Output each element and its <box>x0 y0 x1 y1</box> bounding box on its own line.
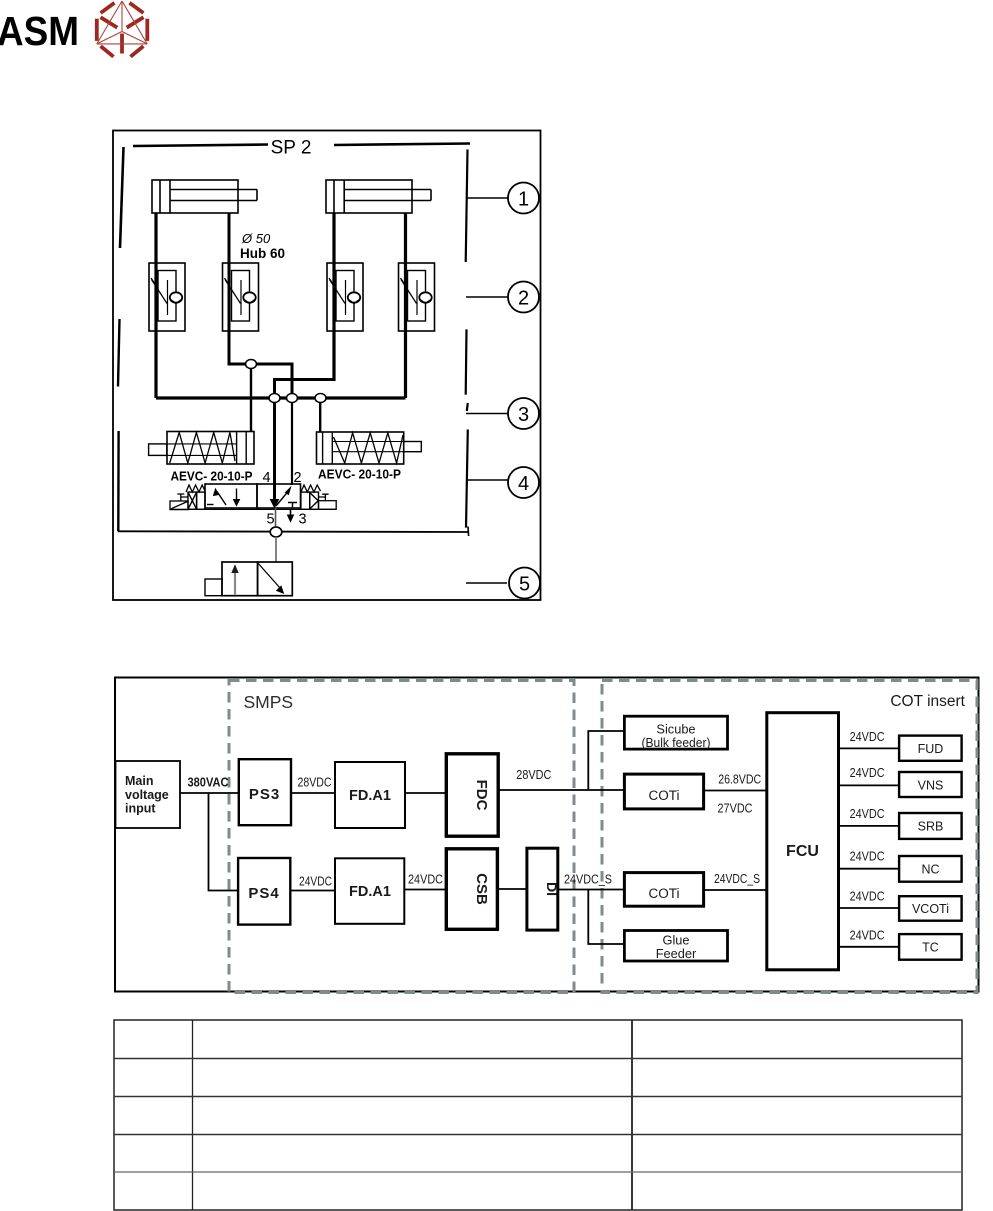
port label 5 <box>266 512 274 528</box>
wire cylinder2 left port down <box>332 213 335 381</box>
svg-text:FD.A1: FD.A1 <box>349 884 391 900</box>
svg-text:24VDC: 24VDC <box>408 873 443 887</box>
svg-text:24VDC_S: 24VDC_S <box>564 873 612 887</box>
node manifold middle <box>287 394 298 403</box>
wire FD.A1 to FDC <box>405 792 446 794</box>
callout circle 5 <box>509 568 540 599</box>
NC box <box>899 856 962 882</box>
COTi upper box <box>624 774 703 809</box>
valve V2 attachment <box>205 579 222 596</box>
FUD box <box>899 736 962 761</box>
valve V1 left manual override <box>170 494 188 510</box>
svg-text:TC: TC <box>922 941 939 955</box>
svg-text:Ø 50: Ø 50 <box>241 231 271 246</box>
svg-text:COTi: COTi <box>649 886 680 901</box>
svg-text:3: 3 <box>518 404 529 426</box>
label 24VDC SRB <box>850 807 885 821</box>
valve V1 exhaust arrow port 3 <box>288 510 294 522</box>
label 24VDC VNS <box>850 766 885 780</box>
node manifold left <box>269 394 280 403</box>
pneumatic diagram outer frame <box>113 131 541 601</box>
svg-text:AEVC- 20-10-P: AEVC- 20-10-P <box>171 469 253 484</box>
svg-text:DI: DI <box>544 882 560 896</box>
svg-text:voltage: voltage <box>125 788 169 802</box>
svg-text:input: input <box>125 802 156 816</box>
SP 2 label <box>271 138 312 159</box>
callout circle 2 <box>508 282 539 313</box>
wire from valve3 to port4 line <box>275 380 335 399</box>
svg-text:4: 4 <box>518 473 529 495</box>
svg-text:27VDC: 27VDC <box>718 802 753 816</box>
callout circle 1 <box>508 183 539 214</box>
wire branch to Glue Feeder <box>588 890 624 945</box>
left bracket segment 3 <box>117 431 120 531</box>
Sicube box <box>624 716 727 750</box>
DI box <box>527 848 560 930</box>
svg-text:24VDC: 24VDC <box>850 929 885 943</box>
manifold wire <box>156 396 406 399</box>
ASM hexagon logo <box>97 1 148 57</box>
Main voltage input box <box>116 761 181 828</box>
wire PS4 to FD.A1 <box>290 890 335 892</box>
wire cylinder2 right port to manifold <box>404 213 407 398</box>
wire branch to PS4 <box>209 793 239 891</box>
cylinder 2 <box>326 180 431 213</box>
VCOTi box <box>899 896 962 921</box>
wire FDC to COTi <box>498 789 624 791</box>
flow control valve 1 <box>149 263 185 331</box>
SMPS dashed box <box>229 681 574 993</box>
node on cylinder1 branch <box>246 360 257 369</box>
wire COTi to FCU lower <box>704 889 767 891</box>
port label 3 <box>298 512 306 528</box>
COT insert dashed box <box>602 681 977 993</box>
svg-text:24VDC: 24VDC <box>299 875 332 889</box>
wire port4 <box>273 398 276 484</box>
svg-text:24VDC: 24VDC <box>850 807 885 821</box>
svg-text:Main: Main <box>125 774 153 788</box>
label 380VAC <box>188 776 229 790</box>
node manifold right <box>315 394 326 403</box>
wire port2 <box>291 398 293 485</box>
svg-text:Feeder: Feeder <box>656 946 697 961</box>
callout line 3 <box>466 413 508 415</box>
SRB box <box>899 813 962 839</box>
block diagram frame <box>115 678 979 992</box>
svg-text:24VDC: 24VDC <box>850 730 885 744</box>
label 24VDC TC <box>850 929 885 943</box>
wire COTi to FCU upper <box>704 790 767 792</box>
svg-text:SRB: SRB <box>918 820 944 834</box>
svg-text:24VDC: 24VDC <box>850 766 885 780</box>
cylinder 1 size label <box>240 231 285 261</box>
COTi lower box <box>624 873 703 907</box>
FD.A1 lower box <box>335 858 404 924</box>
svg-text:2: 2 <box>518 288 529 310</box>
valve V2 right position arrow <box>258 564 284 595</box>
wire CSB to DI <box>497 888 527 890</box>
right bracket segment 1 <box>466 150 468 263</box>
wire FD.A1 to CSB <box>404 889 446 891</box>
wire to right AEVC <box>319 398 321 432</box>
svg-text:SP 2: SP 2 <box>271 138 312 159</box>
label 28VDC (FDC out) <box>516 768 551 782</box>
svg-text:24VDC_S: 24VDC_S <box>714 872 760 886</box>
valve V1 right solenoid block <box>319 494 337 509</box>
label 28VDC (PS3) <box>298 776 332 790</box>
svg-text:CSB: CSB <box>473 873 490 905</box>
svg-text:28VDC: 28VDC <box>298 776 332 790</box>
label 27VDC <box>718 802 753 816</box>
CSB box <box>446 849 497 930</box>
svg-text:(Bulk feeder): (Bulk feeder) <box>642 735 711 750</box>
PS3 box <box>239 759 291 825</box>
valve V2 left position arrow <box>231 564 238 594</box>
label 24VDC NC <box>850 850 885 864</box>
callout circle 3 <box>508 398 539 429</box>
bottom bracket line <box>118 527 469 537</box>
svg-text:FD.A1: FD.A1 <box>349 788 391 804</box>
wire PS3 to FD.A1 <box>291 792 335 794</box>
callout line 5 <box>466 582 507 584</box>
svg-text:PS3: PS3 <box>249 786 280 803</box>
FDC box <box>446 754 498 836</box>
AEVC right label <box>318 467 401 482</box>
label 24VDC (FD.A1 out) <box>408 873 443 887</box>
svg-text:COT insert: COT insert <box>890 693 965 710</box>
wire cylinder1 left port to manifold <box>154 213 157 398</box>
left bracket segment 1 <box>120 147 124 248</box>
FD.A1 upper box <box>335 762 405 828</box>
flow control valve 3 <box>327 263 363 331</box>
svg-text:5: 5 <box>519 574 530 596</box>
valve V1 right position arrows <box>271 484 298 508</box>
valve V1 5/2 body <box>205 484 301 508</box>
SP 2 dash line right <box>334 144 470 146</box>
wire valve V1 port5 down <box>275 508 277 528</box>
port label 4 <box>262 470 270 486</box>
wire DI to lower COTi <box>558 889 625 891</box>
svg-text:SMPS: SMPS <box>244 692 294 712</box>
label 24VDC_S left <box>564 873 612 887</box>
port label 2 <box>293 470 301 486</box>
Glue Feeder box <box>624 931 727 962</box>
svg-text:24VDC: 24VDC <box>850 850 885 864</box>
wire node to valve V2 <box>275 537 277 562</box>
valve V1 left pilot <box>186 485 205 509</box>
label 26.8VDC <box>718 773 761 787</box>
callout line 4 <box>467 479 508 481</box>
wire FCU to VNS <box>839 784 900 786</box>
flow control valve 2 <box>223 263 259 331</box>
svg-text:VNS: VNS <box>918 779 944 793</box>
wire branch to Sicube <box>588 731 624 790</box>
AEVC right cylinder <box>317 432 422 464</box>
VNS box <box>899 772 962 797</box>
svg-text:FUD: FUD <box>918 742 944 756</box>
wire to left AEVC <box>250 364 252 432</box>
wire FCU to TC <box>839 946 900 948</box>
wire FCU to SRB <box>839 825 900 827</box>
cylinder 1 <box>152 180 257 213</box>
SMPS label <box>244 692 294 712</box>
svg-text:Hub 60: Hub 60 <box>240 246 285 261</box>
svg-text:AEVC- 20-10-P: AEVC- 20-10-P <box>318 467 401 482</box>
AEVC left cylinder <box>149 432 254 465</box>
svg-text:1: 1 <box>518 189 529 211</box>
svg-text:ASM: ASM <box>0 8 79 54</box>
node below valve <box>270 527 282 537</box>
svg-text:3: 3 <box>298 512 306 528</box>
right bracket segment 3 <box>467 403 468 411</box>
ASM wordmark <box>0 8 79 54</box>
svg-text:VCOTi: VCOTi <box>912 902 949 916</box>
right bracket segment 2 <box>465 329 468 394</box>
wire from valve2 to port2 line <box>229 213 292 398</box>
label 24VDC_S right <box>714 872 760 886</box>
svg-text:24VDC: 24VDC <box>850 890 885 904</box>
wire FCU to FUD <box>839 747 900 749</box>
svg-text:COTi: COTi <box>649 788 680 803</box>
label 24VDC FUD <box>850 730 885 744</box>
flow control valve 4 <box>399 263 435 331</box>
label 24VDC VCOTi <box>850 890 885 904</box>
wire main to PS3 <box>180 792 239 794</box>
label 24VDC (PS4) <box>299 875 332 889</box>
bottom table <box>114 1020 962 1210</box>
SP 2 dash line left <box>133 145 268 147</box>
callout circle 4 <box>508 467 539 498</box>
svg-text:NC: NC <box>921 863 939 877</box>
COT insert label <box>890 693 965 710</box>
svg-text:FCU: FCU <box>786 843 819 860</box>
svg-text:5: 5 <box>266 512 274 528</box>
callout line 2 <box>466 296 508 298</box>
AEVC left label <box>171 469 253 484</box>
wire FCU to VCOTi <box>839 907 900 909</box>
left bracket segment 2 <box>118 319 120 387</box>
svg-text:380VAC: 380VAC <box>188 776 229 790</box>
callout line 1 <box>467 197 508 199</box>
svg-text:28VDC: 28VDC <box>516 768 551 782</box>
right bracket segment 4 <box>466 430 468 528</box>
PS4 box <box>238 858 290 925</box>
svg-text:FDC: FDC <box>473 780 490 811</box>
TC box <box>899 934 962 960</box>
svg-text:26.8VDC: 26.8VDC <box>718 773 761 787</box>
valve V1 base line <box>170 508 336 510</box>
svg-text:PS4: PS4 <box>248 885 279 902</box>
valve V1 left position arrows <box>207 489 240 506</box>
valve V2 3/2 body <box>222 562 292 596</box>
valve V1 right pilot <box>301 485 321 509</box>
wire FCU to NC <box>839 868 900 870</box>
FCU box <box>767 713 839 970</box>
